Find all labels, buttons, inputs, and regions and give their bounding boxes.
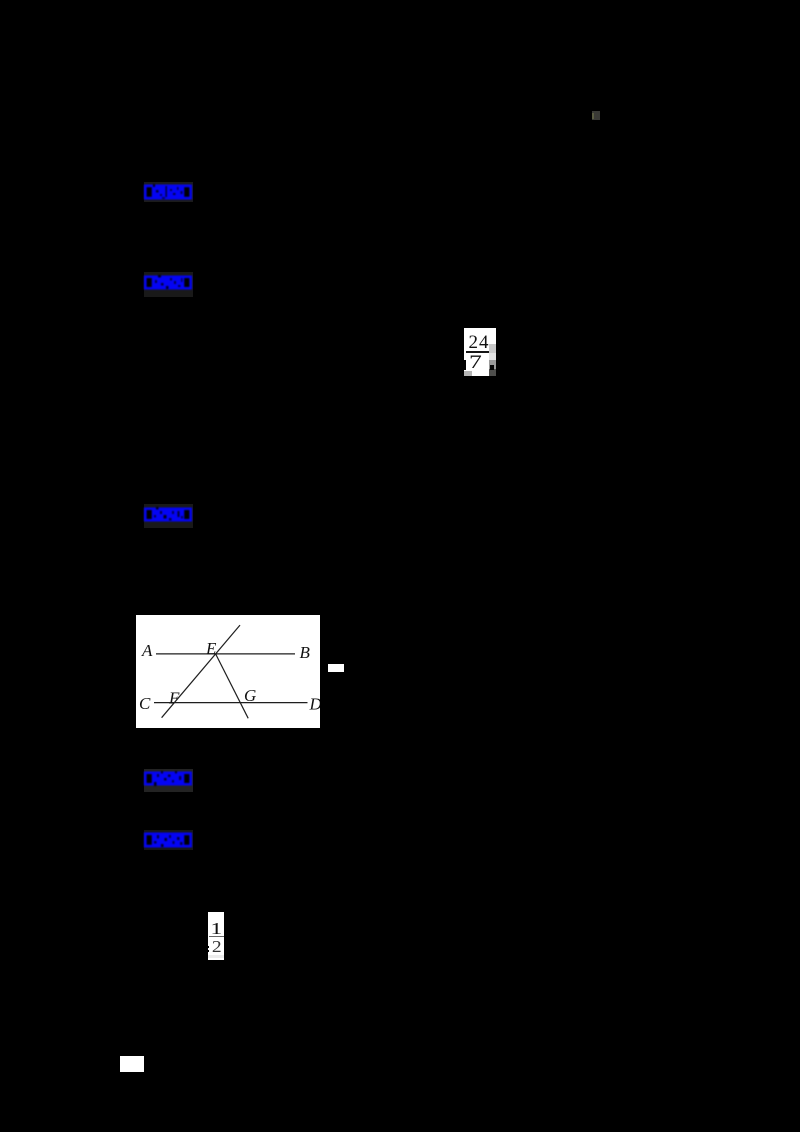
tag halo band (144, 830, 193, 850)
blue tag text (144, 771, 192, 786)
svg-text:C: C (139, 694, 151, 713)
tag halo band (144, 769, 193, 792)
svg-text:E: E (205, 639, 217, 658)
black notch lower-left (464, 360, 466, 370)
line CD (154, 702, 308, 704)
blue tag text (144, 832, 192, 848)
svg-text:B: B (300, 643, 311, 662)
fraction 24/7 image (464, 328, 496, 376)
tag halo band (144, 182, 193, 202)
line AB (156, 653, 295, 655)
blue tag text (144, 184, 192, 200)
small gray square top right (592, 111, 600, 120)
white dash right of diagram (328, 664, 344, 672)
svg-text:G: G (244, 686, 256, 705)
line through F and E (162, 625, 240, 718)
white rectangle bottom left (120, 1056, 144, 1072)
svg-text:F: F (168, 689, 180, 708)
comma (490, 365, 494, 370)
bottom-left gray patch (464, 371, 472, 376)
tag halo band (144, 272, 193, 297)
blue tag text (144, 507, 192, 522)
tag halo band (144, 504, 193, 528)
svg-text:A: A (141, 641, 153, 660)
black notch left (part of = sign) (208, 946, 210, 948)
svg-text:D: D (309, 695, 321, 714)
line E to G extended (216, 654, 249, 718)
fraction 1/2 image (208, 912, 224, 960)
gray shading column right (489, 344, 496, 353)
geometry diagram image (136, 615, 320, 728)
blue tag text (144, 275, 192, 290)
